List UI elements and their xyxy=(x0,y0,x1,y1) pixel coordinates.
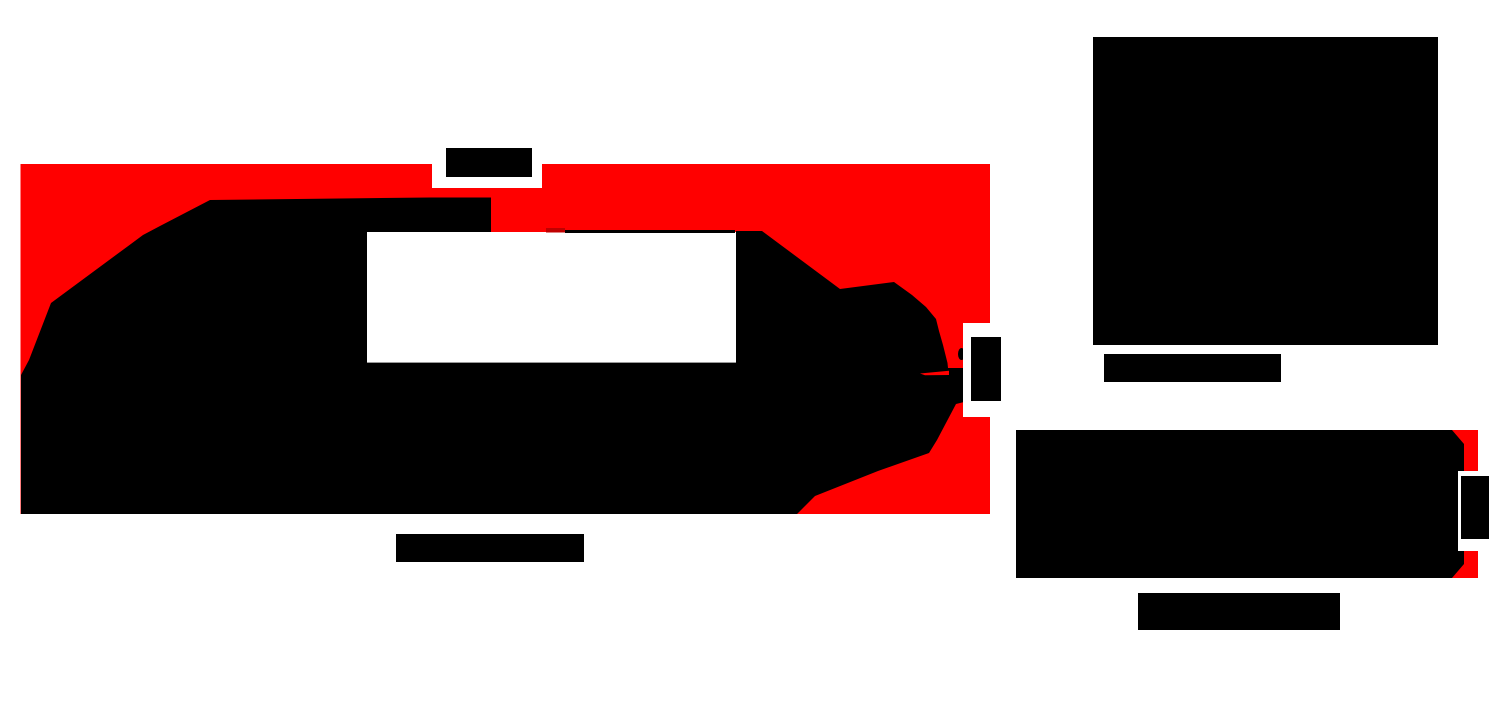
bottom-right black card with beveled right corners xyxy=(1016,430,1464,578)
white notch at top of hero xyxy=(432,163,542,188)
big black square card (top right) xyxy=(1093,37,1438,345)
red edge strip of bottom-right card xyxy=(1452,430,1478,578)
hero red background xyxy=(21,164,991,514)
dark red patch xyxy=(546,228,565,233)
label blob under square card xyxy=(1104,354,1281,382)
top nav label blob xyxy=(446,148,532,177)
mirror bump xyxy=(958,348,965,360)
thin black roofline over panel xyxy=(565,230,735,233)
label blob under car xyxy=(396,534,584,562)
black tab inside right notch xyxy=(1461,476,1489,539)
label blob under bottom-right card xyxy=(1138,593,1340,630)
small white side box on hero right edge xyxy=(963,323,1005,417)
red door seam sliver xyxy=(920,371,949,375)
white notch on right edge of bottom card xyxy=(1458,471,1500,551)
car silhouette (black) xyxy=(21,198,964,515)
black rect inside side box xyxy=(971,337,1001,401)
white text panel over car xyxy=(367,232,736,363)
